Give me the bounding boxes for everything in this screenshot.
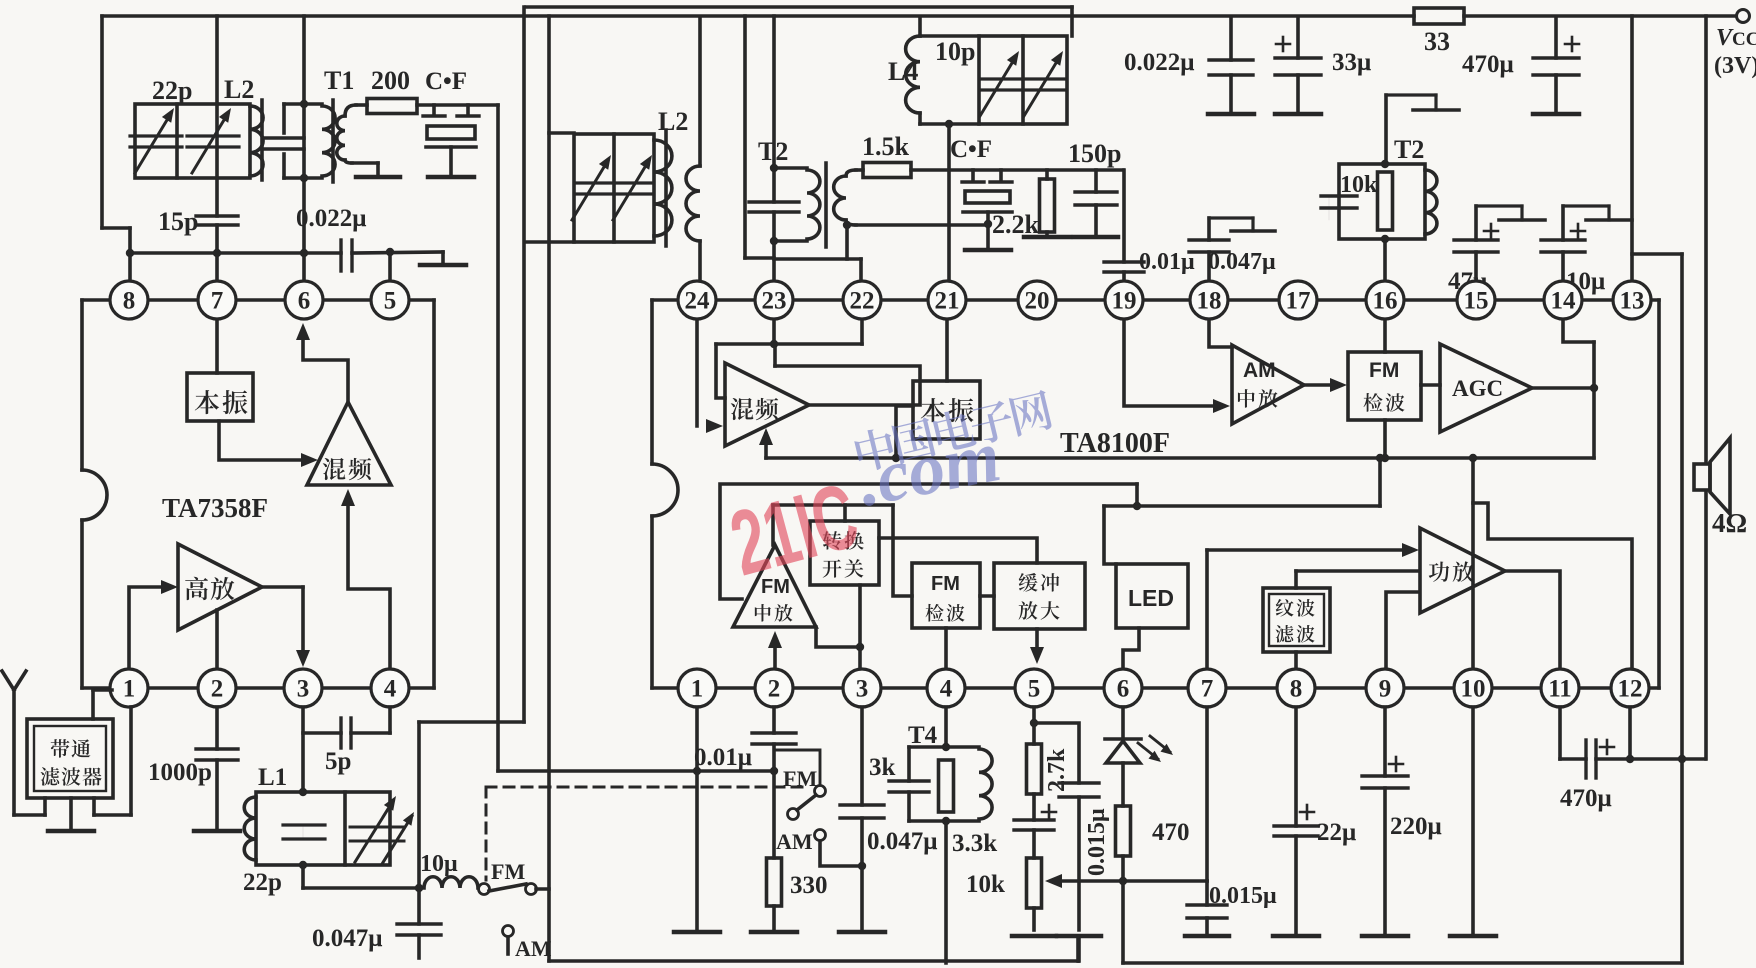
svg-text:L2: L2 xyxy=(224,75,254,104)
svg-text:22p: 22p xyxy=(152,76,192,105)
svg-text:22μ: 22μ xyxy=(1317,819,1356,846)
svg-text:FM: FM xyxy=(1369,359,1399,382)
svg-text:0.01μ: 0.01μ xyxy=(694,744,752,771)
svg-text:1: 1 xyxy=(691,676,704,703)
svg-text:0.01μ: 0.01μ xyxy=(1139,249,1195,275)
svg-text:LED: LED xyxy=(1128,585,1174,611)
svg-text:200: 200 xyxy=(371,66,410,95)
svg-text:0.047μ: 0.047μ xyxy=(312,925,382,952)
svg-text:15p: 15p xyxy=(158,207,198,236)
svg-text:3k: 3k xyxy=(869,754,896,781)
svg-text:T2: T2 xyxy=(758,137,788,166)
svg-text:6: 6 xyxy=(1117,676,1130,703)
svg-text:5: 5 xyxy=(1028,676,1041,703)
svg-text:8: 8 xyxy=(1290,676,1303,703)
svg-text:10p: 10p xyxy=(935,37,975,66)
svg-text:33: 33 xyxy=(1424,27,1450,56)
svg-text:2.7k: 2.7k xyxy=(1044,748,1070,792)
svg-text:FM: FM xyxy=(931,573,960,595)
svg-text:1: 1 xyxy=(123,676,136,703)
svg-text:470: 470 xyxy=(1152,819,1190,846)
svg-text:FM: FM xyxy=(783,766,817,791)
svg-text:T1: T1 xyxy=(324,66,354,95)
svg-text:2.2k: 2.2k xyxy=(992,210,1040,239)
svg-text:3.3k: 3.3k xyxy=(952,830,997,857)
svg-text:FM: FM xyxy=(491,859,525,884)
svg-text:AM: AM xyxy=(776,829,813,854)
svg-text:5: 5 xyxy=(384,288,397,315)
svg-text:10μ: 10μ xyxy=(420,851,458,877)
svg-text:8: 8 xyxy=(123,288,136,315)
svg-text:2: 2 xyxy=(211,676,224,703)
svg-text:10: 10 xyxy=(1461,676,1486,703)
svg-text:AM: AM xyxy=(515,936,552,961)
svg-text:L2: L2 xyxy=(658,107,688,136)
svg-text:470μ: 470μ xyxy=(1462,51,1514,78)
svg-text:C•F: C•F xyxy=(425,68,467,95)
svg-text:T2: T2 xyxy=(1394,135,1424,164)
svg-text:0.047μ: 0.047μ xyxy=(867,828,937,855)
svg-text:150p: 150p xyxy=(1068,139,1121,168)
svg-text:T4: T4 xyxy=(908,722,938,749)
svg-text:4: 4 xyxy=(384,676,397,703)
svg-text:16: 16 xyxy=(1373,288,1398,315)
svg-text:13: 13 xyxy=(1620,288,1645,315)
svg-text:VCC: VCC xyxy=(1716,25,1756,51)
svg-text:4: 4 xyxy=(940,676,953,703)
svg-text:3: 3 xyxy=(856,676,869,703)
svg-text:33μ: 33μ xyxy=(1332,49,1371,76)
svg-text:24: 24 xyxy=(685,288,711,315)
svg-text:17: 17 xyxy=(1286,288,1311,315)
svg-text:21: 21 xyxy=(935,288,960,315)
svg-text:22p: 22p xyxy=(243,869,282,896)
svg-text:L1: L1 xyxy=(258,764,287,791)
svg-text:7: 7 xyxy=(211,288,224,315)
svg-text:AGC: AGC xyxy=(1452,376,1503,401)
svg-text:7: 7 xyxy=(1201,676,1214,703)
svg-text:0.015μ: 0.015μ xyxy=(1084,808,1110,876)
svg-text:5p: 5p xyxy=(325,748,351,775)
svg-text:0.047μ: 0.047μ xyxy=(1208,249,1276,275)
svg-text:3: 3 xyxy=(297,676,310,703)
svg-text:9: 9 xyxy=(1379,676,1392,703)
svg-text:AM: AM xyxy=(1243,359,1276,382)
svg-text:C•F: C•F xyxy=(950,136,992,163)
svg-text:L4: L4 xyxy=(888,57,918,86)
svg-text:330: 330 xyxy=(790,872,828,899)
svg-text:14: 14 xyxy=(1551,288,1577,315)
svg-text:220μ: 220μ xyxy=(1390,813,1442,840)
svg-text:6: 6 xyxy=(298,288,311,315)
svg-text:11: 11 xyxy=(1548,676,1572,703)
svg-text:18: 18 xyxy=(1197,288,1222,315)
svg-text:4Ω: 4Ω xyxy=(1712,508,1747,538)
svg-text:19: 19 xyxy=(1112,288,1137,315)
svg-text:1000p: 1000p xyxy=(148,759,212,786)
svg-text:20: 20 xyxy=(1025,288,1050,315)
svg-text:(3V): (3V) xyxy=(1714,53,1756,79)
svg-text:12: 12 xyxy=(1618,676,1643,703)
svg-text:0.022μ: 0.022μ xyxy=(1124,49,1194,76)
svg-text:TA7358F: TA7358F xyxy=(162,493,268,523)
svg-text:15: 15 xyxy=(1464,288,1489,315)
svg-text:22: 22 xyxy=(850,288,875,315)
svg-text:TA8100F: TA8100F xyxy=(1060,428,1170,459)
svg-text:0.015μ: 0.015μ xyxy=(1209,883,1277,909)
svg-text:2: 2 xyxy=(768,676,781,703)
svg-text:0.022μ: 0.022μ xyxy=(296,205,366,232)
svg-text:1.5k: 1.5k xyxy=(862,132,910,161)
svg-text:10k: 10k xyxy=(1340,172,1378,198)
svg-text:470μ: 470μ xyxy=(1560,785,1612,812)
svg-text:23: 23 xyxy=(762,288,787,315)
svg-text:10k: 10k xyxy=(966,871,1005,898)
